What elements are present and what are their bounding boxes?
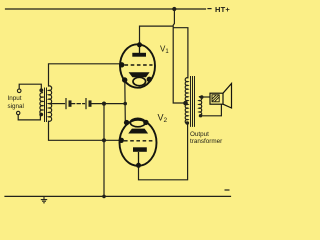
transformer T1 core [45,88,47,123]
wire V1 anode riser [140,26,173,44]
valve V1 grid node [119,62,124,67]
node ground rail junction [102,195,106,199]
node bias tee [102,102,106,106]
transformer T2 core [191,76,195,127]
transformer T1 input: primary winding [40,93,43,115]
svg-text:signal: signal [8,103,24,110]
node on HT rail [172,7,176,11]
node centre tap [183,101,188,106]
wire input top lead [19,84,41,90]
valve V2 anode plate [133,147,147,152]
valve V1 grid [125,64,153,66]
node small dash right [225,189,230,191]
transformer T1 secondary winding [49,86,52,121]
wire HT drop to centre tap [173,9,185,103]
node filament bias tee [123,102,127,106]
valve V2 heater loop [130,118,145,126]
valve V1 cathode right node [147,77,152,82]
valve V1 filament plate [129,72,150,77]
valve V2 anode lead [138,152,140,165]
node secondary bottom [199,114,202,117]
wire secondary top to speaker [199,96,210,98]
wire bias chain dashed link [72,103,85,105]
transformer T2 output: primary winding [185,78,188,124]
valve V1 envelope [120,44,155,87]
svg-text:HT+: HT+ [215,5,230,14]
wire V2 anode to transformer bottom [139,123,188,180]
node input primary top [39,88,43,92]
wire bias chain centre tap lead [51,103,65,105]
wire input bottom lead [18,115,40,120]
svg-text:Output: Output [190,131,209,138]
valve V2 cathode left node [124,120,129,125]
node speaker top lead [200,95,204,99]
valve V2 grid node [119,138,124,143]
valve V1 heater loop [133,77,146,85]
wire HT+ tick [208,8,211,10]
wire filament link V1 to V2 [124,80,127,123]
wire ground drop [103,104,105,197]
terminal input top [17,89,21,93]
svg-text:Input: Input [8,95,22,102]
valve V2 filament plate [128,129,148,134]
wire V2 grid from secondary bottom [49,121,122,140]
transformer T2 secondary winding [199,97,202,116]
valve V2 envelope [120,120,157,166]
valve V1 anode plate [132,53,146,57]
battery GB cell 1 [66,98,70,109]
valve V1 cathode left node [122,77,127,82]
terminal input bottom [17,111,20,114]
node output primary bottom [186,121,190,125]
valve V2 anode pin node [136,163,141,168]
wire to output transformer top [174,28,188,78]
valve V1 anode pin node [137,42,142,47]
battery GB cell 2 [86,98,90,109]
node input primary bottom [39,113,43,117]
valve V2 cathode right node [143,120,148,125]
valve V1 anode lead [139,45,141,53]
wire HT+ rail [6,8,206,10]
wire 0V bottom rail [5,195,231,197]
ground symbol [41,196,47,202]
wire V1 grid from secondary top [49,64,122,86]
speaker cone [223,84,232,109]
speaker driver box [210,93,223,104]
svg-text:transformer: transformer [190,138,222,145]
wire secondary bottom to speaker [199,104,222,115]
valve V2 grid [124,140,154,142]
wire bias chain to filament line [91,103,125,105]
node grid wire crossing [102,138,106,142]
speaker coil hatch [212,95,219,102]
